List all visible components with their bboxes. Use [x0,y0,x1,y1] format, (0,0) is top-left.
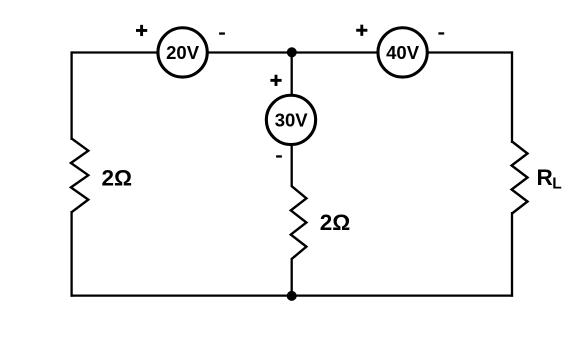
svg-text:R: R [537,165,553,190]
polarity - of 20V [219,32,225,34]
svg-text:20V: 20V [166,42,200,63]
svg-text:40V: 40V [386,42,420,63]
resistor R2 2Ω (middle branch) [291,186,307,259]
svg-text:L: L [552,175,561,192]
voltage source V3 30V [266,95,315,144]
svg-text:2Ω: 2Ω [102,165,133,190]
wire left rail lower [70,211,72,297]
polarity + of 40V [356,25,367,36]
wire middle branch lower [291,258,293,296]
wire middle branch upper [291,52,293,95]
polarity - of 30V [276,155,282,157]
wire top-middle segment [207,51,378,53]
svg-text:2Ω: 2Ω [320,210,351,235]
wire bottom [71,294,514,296]
wire left rail upper [70,51,72,140]
polarity - of 40V [438,32,444,34]
voltage source V1 20V [158,28,207,77]
svg-text:30V: 30V [275,110,309,131]
node A (top junction) [287,47,297,57]
node B (bottom junction) [287,291,297,301]
voltage source V2 40V [378,28,427,77]
wire middle branch between source and resistor [291,144,293,187]
wire right rail lower [511,212,513,297]
wire top-left segment [72,51,158,53]
resistor R1 2Ω (left branch) [71,139,88,213]
value label RL [537,165,562,192]
polarity + of 30V [270,75,281,86]
wire right rail upper [511,51,513,143]
resistor RL (right branch) [512,142,528,214]
wire top-right segment [427,51,514,53]
polarity + of 20V [136,25,147,36]
